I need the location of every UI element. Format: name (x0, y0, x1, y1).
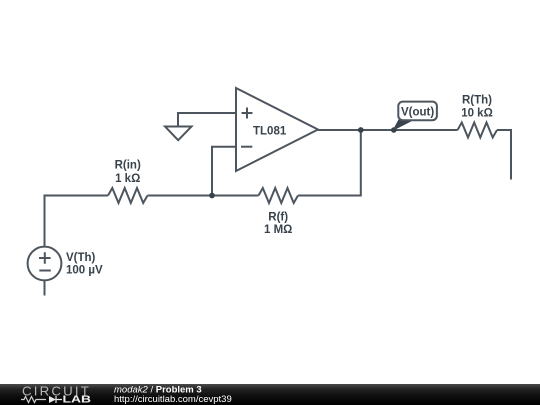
svg-text:R(Th): R(Th) (462, 95, 492, 107)
resistor R(in) (108, 188, 148, 203)
wire R(f) to feedback riser (298, 130, 361, 196)
footer bar (0, 384, 540, 405)
op-amp plus sign (242, 108, 253, 119)
node V(out) flag box (398, 102, 437, 121)
node V(out) flag tail (392, 120, 415, 132)
svg-text:10 kΩ: 10 kΩ (461, 108, 493, 120)
source V(Th) circle (28, 247, 62, 281)
svg-text:V(Th): V(Th) (66, 252, 96, 264)
resistor R(Th) (458, 123, 498, 138)
svg-text:R(f): R(f) (268, 212, 288, 224)
node V(out) dot (391, 127, 397, 133)
svg-text:V(out): V(out) (401, 107, 434, 119)
ground (165, 127, 192, 141)
svg-text:R(in): R(in) (115, 160, 141, 172)
wire - input (212, 147, 236, 196)
wire R(Th) to output stub (497, 130, 511, 180)
op-amp minus sign (241, 146, 252, 148)
wire + input from ground (178, 113, 236, 127)
node junction dot output (358, 127, 364, 133)
svg-text:LAB: LAB (63, 395, 92, 405)
wire R(in) to R(f) (148, 195, 259, 197)
op-amp U1 TL081 (236, 88, 318, 171)
source plus sign (39, 252, 51, 264)
logo diode (49, 396, 56, 403)
wire output (318, 129, 458, 131)
svg-text:100 µV: 100 µV (66, 265, 103, 277)
node junction dot feedback (209, 193, 215, 199)
resistor R(f) (259, 188, 299, 203)
logo resistor squiggle (21, 397, 46, 403)
svg-text:1 kΩ: 1 kΩ (115, 173, 140, 185)
svg-text:1 MΩ: 1 MΩ (264, 224, 292, 236)
wire bottom left (45, 196, 109, 247)
wire source bottom stub (44, 280, 46, 295)
source minus sign (39, 270, 51, 272)
svg-text:http://circuitlab.com/cevpt39: http://circuitlab.com/cevpt39 (114, 394, 232, 405)
svg-text:TL081: TL081 (253, 126, 287, 138)
